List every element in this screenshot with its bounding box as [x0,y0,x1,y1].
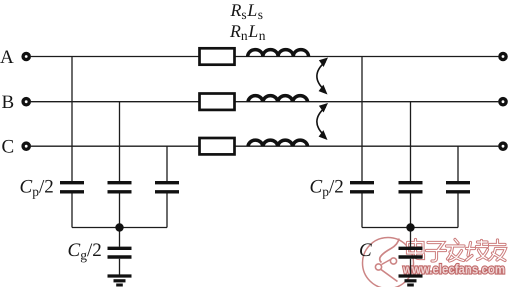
svg-text:A: A [0,47,14,68]
svg-text:C: C [359,240,372,261]
svg-text:C: C [2,137,15,158]
svg-text:B: B [2,92,15,113]
svg-text:www.elecfans.com: www.elecfans.com [402,262,505,277]
